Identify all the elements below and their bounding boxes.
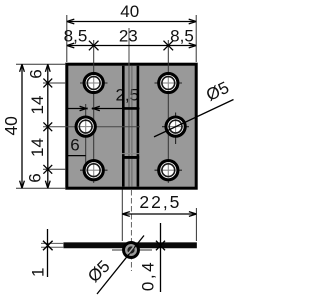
dimension 22,5: line bbox=[122, 213, 196, 215]
dimension chain left: line bbox=[47, 64, 49, 188]
extension line 22,5 left bbox=[121, 190, 123, 242]
bottom row cross stubs bbox=[80, 169, 108, 171]
barrel circle (side view) bbox=[124, 243, 139, 258]
knuckle division lower bbox=[122, 156, 139, 159]
hole middle-right bbox=[166, 117, 185, 136]
svg-text:8,5: 8,5 bbox=[170, 26, 194, 45]
svg-text:1: 1 bbox=[28, 267, 47, 276]
dimension chain left: top arrow bbox=[45, 64, 50, 72]
dimension chain left: cross at row2 bbox=[43, 122, 52, 131]
hole top-right bbox=[159, 73, 178, 92]
dimension 6 inner: line bbox=[67, 155, 86, 157]
svg-text:23: 23 bbox=[119, 27, 138, 46]
knuckle division lower thin edge bbox=[122, 153, 139, 155]
dimension 2,5 stagger: line to text bbox=[94, 108, 140, 110]
dimension row2: cross arrows at right hole column bbox=[164, 41, 174, 51]
dimension chain left: bottom arrow bbox=[45, 181, 50, 189]
svg-text:Ø5: Ø5 bbox=[203, 78, 232, 105]
svg-text:6: 6 bbox=[26, 173, 45, 182]
svg-text:40: 40 bbox=[1, 116, 21, 136]
hole column centerline left bbox=[93, 40, 95, 183]
dimension row2: line bbox=[67, 45, 196, 47]
barrel left line bbox=[122, 66, 125, 187]
barrel right line bbox=[137, 66, 140, 187]
dimension 40 top: left arrow bbox=[67, 19, 75, 24]
side view leaf bar bbox=[65, 243, 196, 247]
svg-text:2,5: 2,5 bbox=[115, 86, 139, 105]
dimension 0,4: crossing arrows bbox=[156, 241, 165, 251]
middle row centerline bbox=[43, 126, 140, 128]
barrel circle vertical centerline bbox=[130, 190, 132, 271]
dimension 22,5: right arrow bbox=[189, 212, 197, 217]
dimension 2,5 stagger: arrow pointing right bbox=[80, 106, 88, 111]
top row cross stubs bbox=[80, 82, 108, 84]
svg-text:6: 6 bbox=[70, 136, 79, 155]
dimension 40 left: bottom arrow bbox=[20, 181, 25, 189]
extension line 22,5 right bbox=[195, 208, 197, 241]
dimension 1 thickness: crossing arrows bbox=[43, 241, 53, 251]
dimension 2,5 stagger: arrow pointing left bbox=[92, 106, 100, 111]
dimension 40 top: right arrow bbox=[189, 19, 197, 24]
middle hole left vertical centerline bbox=[85, 104, 87, 163]
extension line plate right top bbox=[195, 15, 197, 62]
pin highlight slash bbox=[128, 246, 134, 253]
svg-text:14: 14 bbox=[28, 96, 47, 115]
dimension 1 thickness: vertical line bbox=[47, 229, 49, 277]
pin circle (side view) bbox=[127, 246, 134, 253]
leader diameter 5 (top view) bbox=[154, 100, 234, 137]
leader diameter 5 (side view) bbox=[97, 236, 144, 295]
hole inner thin rings bbox=[79, 77, 182, 177]
dimension chain left: cross at row3 bbox=[43, 165, 52, 174]
dimension row2: left arrow at plate edge bbox=[67, 43, 75, 48]
svg-text:14: 14 bbox=[28, 138, 47, 157]
svg-text:22,5: 22,5 bbox=[139, 192, 181, 212]
dimension 2,5 stagger: tail from plate edge bbox=[67, 108, 86, 110]
side view bar surface extension top bbox=[41, 242, 64, 244]
side view bar surface extension bottom bbox=[41, 246, 64, 248]
svg-text:6: 6 bbox=[27, 69, 46, 78]
svg-text:Ø5: Ø5 bbox=[84, 257, 113, 286]
middle hole right cross stubs bbox=[162, 126, 189, 128]
svg-text:0,4: 0,4 bbox=[138, 260, 157, 291]
hinge pin bore line left bbox=[128, 28, 130, 187]
hinge pin bore line right bbox=[131, 66, 133, 187]
hole bottom-right bbox=[159, 161, 178, 180]
inner hole crosshairs bbox=[78, 76, 183, 178]
left overall extension line bottom bbox=[16, 187, 66, 189]
row extension line 1 bbox=[43, 82, 66, 84]
extension line plate left top bbox=[66, 15, 68, 62]
svg-text:8,5: 8,5 bbox=[64, 26, 88, 45]
hole top-left bbox=[84, 73, 103, 92]
dimension 40 top: line bbox=[67, 21, 196, 23]
dimension row2: cross arrows at left hole column bbox=[89, 41, 99, 51]
dimension row2: right arrow at plate edge bbox=[189, 43, 197, 48]
left overall extension line top bbox=[16, 63, 66, 65]
dimension chain left: cross at row1 bbox=[43, 79, 52, 88]
row extension line 3 bbox=[43, 168, 66, 170]
hole column centerline right bbox=[167, 40, 169, 183]
hinge plate (top view) bbox=[67, 64, 196, 188]
hole middle-left bbox=[76, 117, 95, 136]
barrel circle horizontal centerline bbox=[112, 249, 152, 251]
svg-text:40: 40 bbox=[120, 2, 139, 21]
dimension 0,4: vertical line bbox=[160, 223, 162, 292]
hole bottom-left bbox=[84, 161, 103, 180]
dimension 40 left: top arrow bbox=[20, 64, 25, 72]
dimension 22,5: left arrow bbox=[122, 212, 130, 217]
dimension 40 left: line bbox=[21, 64, 23, 188]
knuckle division upper bbox=[122, 107, 139, 110]
